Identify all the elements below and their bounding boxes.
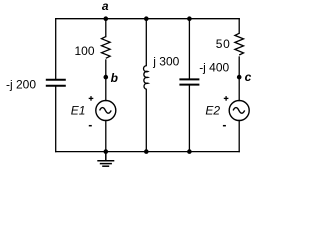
ground bbox=[97, 152, 114, 167]
junction dot bottom ground bbox=[104, 149, 109, 154]
wire bottom rail bbox=[56, 151, 240, 153]
node a junction dot bbox=[104, 16, 109, 21]
E2 minus sign bbox=[223, 125, 226, 127]
source E2 bbox=[229, 101, 249, 121]
svg-text:E1: E1 bbox=[71, 104, 86, 118]
source E1 bbox=[96, 101, 116, 121]
wire R2 to node c and E2 bbox=[238, 57, 240, 101]
svg-text:E2: E2 bbox=[205, 104, 220, 118]
svg-text:-j 200: -j 200 bbox=[6, 77, 36, 91]
wire left rail lower bbox=[55, 86, 57, 152]
capacitor -j400 bbox=[179, 79, 199, 84]
wire branch R1/E1 top bbox=[105, 19, 107, 37]
E1 minus sign bbox=[89, 125, 92, 127]
capacitor -j200 bbox=[46, 80, 66, 86]
wire inductor branch top bbox=[145, 19, 147, 66]
svg-text:100: 100 bbox=[75, 44, 95, 58]
wire E1 to bottom rail bbox=[105, 121, 107, 152]
svg-text:50: 50 bbox=[216, 37, 231, 51]
junction dot top cap2 bbox=[187, 16, 192, 21]
svg-text:b: b bbox=[111, 71, 118, 85]
resistor R 50 bbox=[235, 33, 244, 55]
svg-text:j 300: j 300 bbox=[152, 55, 179, 69]
junction dot bottom inductor bbox=[144, 149, 149, 154]
svg-text:c: c bbox=[245, 70, 252, 84]
wire left rail bbox=[55, 19, 57, 79]
wire inductor branch bottom bbox=[145, 89, 147, 151]
wire right rail top bbox=[238, 19, 240, 34]
inductor j300 bbox=[144, 66, 148, 90]
wire E2 to bottom rail bbox=[238, 121, 240, 152]
node c junction dot bbox=[237, 75, 242, 80]
wire top rail bbox=[56, 18, 240, 20]
E2 plus sign bbox=[224, 96, 229, 101]
E1 plus sign bbox=[89, 96, 94, 101]
junction dot top inductor bbox=[144, 16, 149, 21]
svg-text:a: a bbox=[102, 0, 109, 13]
wire R1 to node b bbox=[105, 60, 107, 101]
node b junction dot bbox=[104, 75, 109, 80]
resistor R 100 bbox=[102, 37, 111, 59]
wire cap2 branch bottom bbox=[188, 85, 190, 152]
svg-text:-j 400: -j 400 bbox=[199, 61, 229, 75]
junction dot bottom cap2 bbox=[187, 149, 192, 154]
wire cap2 branch top bbox=[188, 19, 190, 79]
